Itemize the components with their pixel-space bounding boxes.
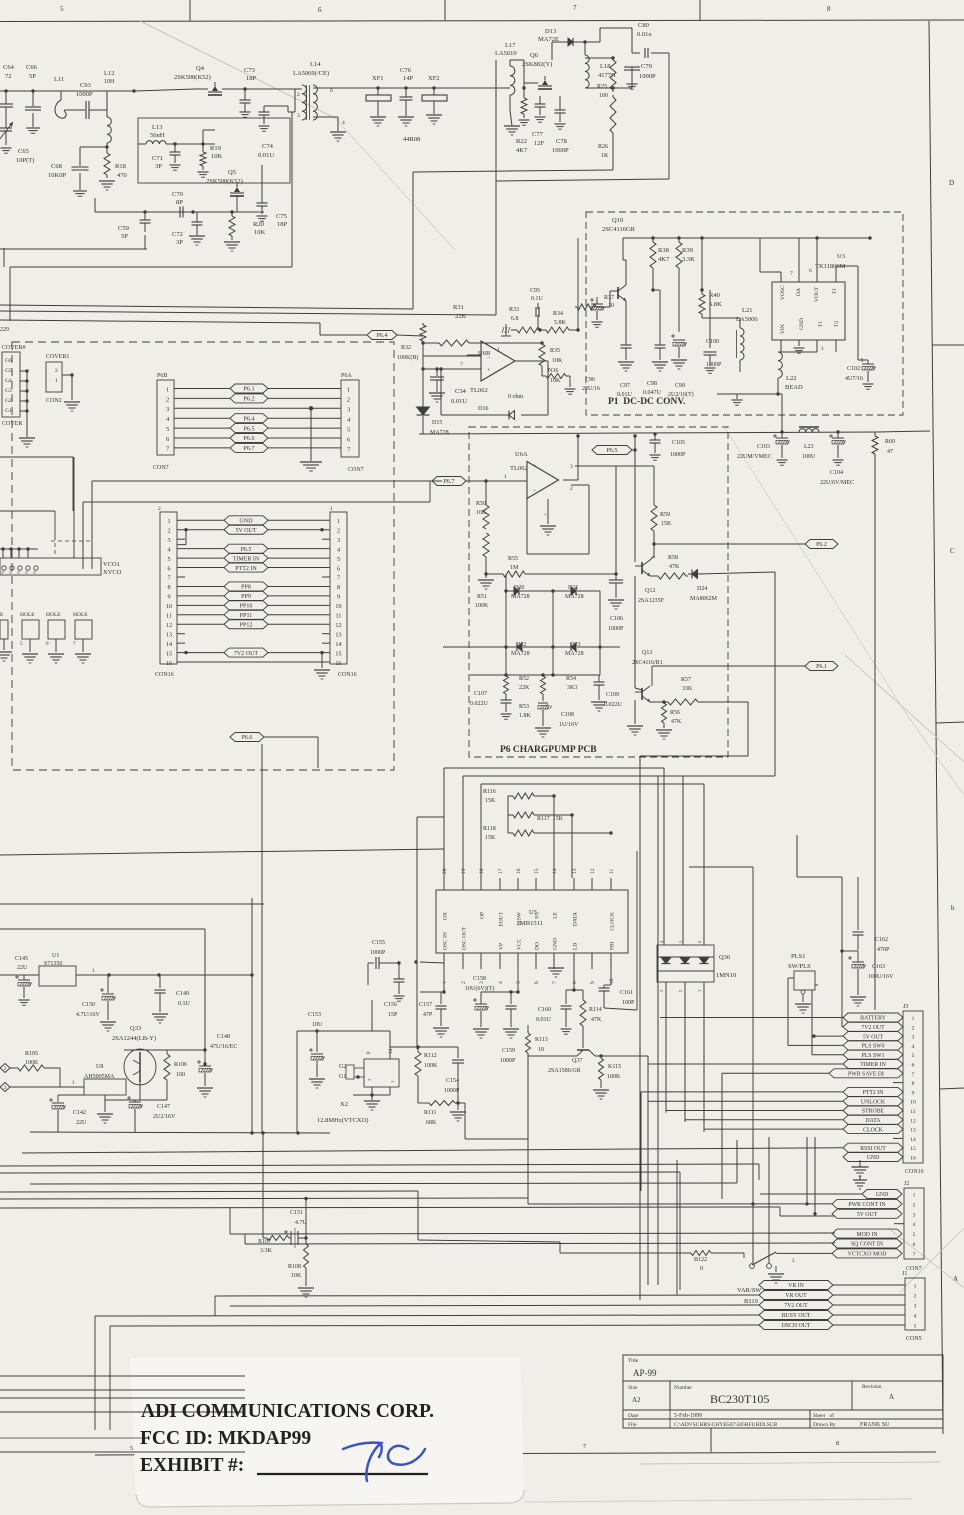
- capacitor C155: [368, 940, 399, 985]
- svg-text:100P: 100P: [622, 1000, 635, 1006]
- svg-text:CON2: CON2: [46, 398, 62, 404]
- svg-text:1: 1: [697, 990, 702, 992]
- svg-text:3K3: 3K3: [567, 685, 577, 691]
- wire X2 right: [390, 1045, 458, 1048]
- stamp text ADI: [141, 1401, 434, 1422]
- border frame top line: [0, 20, 964, 22]
- wire vert 664: [676, 1160, 678, 1295]
- diode D23: [553, 598, 620, 657]
- zone letter D: [949, 179, 954, 187]
- zone letter C: [950, 547, 955, 555]
- svg-text:1: 1: [337, 518, 340, 525]
- svg-text:G2: G2: [5, 398, 12, 404]
- svg-text:3: 3: [166, 406, 169, 413]
- svg-text:R51: R51: [477, 594, 487, 600]
- svg-text:G: G: [8, 570, 13, 573]
- svg-text:C71: C71: [152, 155, 163, 162]
- svg-text:C163: C163: [872, 964, 885, 970]
- svg-text:G2: G2: [339, 1064, 346, 1070]
- capacitor C160: [536, 969, 583, 1034]
- svg-text:9: 9: [590, 981, 596, 984]
- ground J3 GND: [852, 1160, 869, 1189]
- bottom zone 8: [836, 1440, 839, 1447]
- dash-dot VCO box: [51, 541, 90, 556]
- wire bus line C: [0, 320, 367, 335]
- svg-text:22U/16: 22U/16: [582, 386, 600, 392]
- svg-text:6: 6: [337, 565, 340, 572]
- svg-text:C73: C73: [244, 67, 255, 74]
- svg-text:0 ohm: 0 ohm: [508, 394, 524, 400]
- svg-text:0.022U: 0.022U: [470, 701, 489, 707]
- capacitor C162: [853, 877, 891, 953]
- svg-text:8: 8: [337, 584, 340, 591]
- border tick x445: [444, 0, 446, 21]
- svg-text:FCC ID: MKDAP99: FCC ID: MKDAP99: [140, 1428, 311, 1449]
- svg-text:Revision: Revision: [862, 1384, 882, 1390]
- crystal filter XF2: [422, 75, 447, 124]
- svg-text:VCTCXO MOD: VCTCXO MOD: [848, 1252, 887, 1258]
- border tick right y345: [932, 344, 964, 346]
- svg-text:Q10: Q10: [612, 217, 623, 224]
- svg-text:22K: 22K: [455, 313, 467, 320]
- svg-text:2: 2: [297, 92, 300, 98]
- border tick x190: [189, 0, 191, 21]
- svg-text:C154: C154: [446, 1078, 459, 1084]
- svg-text:15: 15: [166, 650, 172, 657]
- svg-text:1: 1: [390, 1081, 395, 1083]
- svg-text:3: 3: [914, 1304, 917, 1310]
- wire left block outline: [0, 511, 55, 540]
- svg-text:10: 10: [335, 603, 341, 610]
- op-amp U6B: [460, 341, 515, 394]
- svg-text:6.8: 6.8: [511, 316, 519, 322]
- svg-text:P6B: P6B: [157, 373, 167, 379]
- svg-text:3: 3: [347, 407, 350, 414]
- svg-text:3: 3: [167, 537, 170, 544]
- svg-text:Date: Date: [628, 1413, 639, 1419]
- svg-text:PP8: PP8: [241, 585, 251, 591]
- svg-text:2SA1244(LB-Y): 2SA1244(LB-Y): [112, 1035, 156, 1042]
- wire VCO pins: [0, 547, 38, 573]
- capacitor C107: [470, 691, 512, 719]
- svg-text:5: 5: [516, 981, 522, 984]
- svg-text:47U/16/EC: 47U/16/EC: [210, 1044, 237, 1050]
- wire main bus: [419, 431, 930, 434]
- svg-text:C102: C102: [847, 366, 860, 372]
- svg-text:R18: R18: [115, 163, 126, 170]
- svg-text:R34: R34: [553, 311, 563, 317]
- flag P6.4: [352, 331, 397, 340]
- small zone 5 bottom: [130, 1446, 133, 1452]
- svg-text:13: 13: [166, 631, 172, 638]
- svg-text:4: 4: [912, 1044, 915, 1050]
- svg-text:OSC IN: OSC IN: [443, 932, 449, 950]
- svg-text:16: 16: [166, 660, 172, 667]
- svg-text:2: 2: [678, 990, 683, 992]
- svg-text:R25: R25: [597, 84, 607, 90]
- bus line 2: [0, 0, 1, 1]
- svg-text:10: 10: [166, 603, 172, 610]
- svg-text:2U2/16V: 2U2/16V: [153, 1114, 176, 1120]
- svg-text:18: 18: [479, 868, 485, 874]
- svg-text:P6.4: P6.4: [243, 415, 254, 422]
- flag P6.1: [805, 662, 838, 671]
- svg-text:10K: 10K: [550, 378, 561, 384]
- svg-text:6: 6: [318, 6, 322, 14]
- wire P6.6 line: [264, 737, 318, 768]
- capacitor C34: [429, 367, 467, 405]
- connector CON16 right: [330, 506, 357, 678]
- bus line mod: [230, 1208, 835, 1234]
- svg-text:P6.5: P6.5: [241, 547, 252, 553]
- transistor Q5: [206, 169, 244, 212]
- svg-text:L14: L14: [310, 61, 321, 68]
- svg-text:14: 14: [335, 641, 341, 648]
- resistor R115: [593, 1054, 648, 1099]
- ground X2: [353, 1087, 390, 1110]
- IC U5 MB1511: [436, 868, 628, 984]
- transistor Q6: [522, 52, 552, 89]
- svg-text:R118: R118: [483, 826, 496, 832]
- wire loop A: [0, 170, 613, 309]
- svg-text:12F: 12F: [534, 140, 545, 147]
- capacitor C66: [25, 64, 41, 133]
- svg-text:2SA1235F: 2SA1235F: [638, 598, 665, 604]
- svg-text:C72: C72: [172, 231, 183, 238]
- svg-text:U8: U8: [96, 1064, 103, 1070]
- svg-text:Title: Title: [628, 1358, 639, 1364]
- resistor R117: [508, 812, 574, 878]
- svg-text:3: 3: [913, 1212, 916, 1218]
- svg-text:4U7/16: 4U7/16: [845, 376, 863, 382]
- scan crease diagonal top: [140, 21, 455, 250]
- svg-text:C59: C59: [118, 225, 129, 232]
- svg-text:6: 6: [167, 565, 170, 572]
- wire L14 to filters: [340, 87, 500, 89]
- svg-text:C103: C103: [757, 444, 770, 450]
- svg-text:P6.4: P6.4: [377, 333, 388, 339]
- transistor Q33: [112, 929, 207, 1085]
- svg-text:P6.7: P6.7: [444, 479, 455, 485]
- bus line 3: [0, 1164, 759, 1180]
- svg-text:2SC4116GR: 2SC4116GR: [602, 226, 636, 233]
- svg-text:4K7: 4K7: [658, 256, 670, 263]
- svg-text:HOLE: HOLE: [73, 612, 88, 618]
- inductor L17: [495, 42, 524, 95]
- resistor R107: [258, 1236, 291, 1255]
- svg-text:1: 1: [497, 347, 500, 353]
- svg-text:G: G: [32, 570, 37, 573]
- svg-text:100U/16V: 100U/16V: [868, 974, 894, 980]
- diode D20: [504, 574, 554, 600]
- svg-text:CON7: CON7: [906, 1266, 922, 1272]
- svg-text:47K: 47K: [591, 1017, 602, 1023]
- svg-text:7V2 OUT: 7V2 OUT: [234, 651, 258, 657]
- svg-text:6: 6: [809, 268, 812, 274]
- svg-text:R33: R33: [509, 307, 519, 313]
- resistor R40: [699, 236, 740, 318]
- svg-text:FBI: FBI: [610, 941, 616, 950]
- svg-text:D24: D24: [697, 586, 707, 592]
- bus line sq: [245, 1234, 835, 1244]
- flag P6.7: [432, 477, 466, 486]
- stamp text EXHIBIT: [140, 1455, 428, 1476]
- svg-text:C107: C107: [474, 691, 487, 697]
- capacitor C109: [591, 675, 623, 711]
- exit line 1: [0, 1375, 245, 1377]
- wire Q37 bottom: [465, 1056, 528, 1198]
- resistor R112: [415, 1047, 438, 1103]
- svg-text:A2: A2: [632, 1396, 641, 1404]
- wire long 853: [0, 849, 444, 855]
- svg-text:8: 8: [572, 981, 578, 984]
- resistor R116: [483, 789, 556, 878]
- capacitor C96: [582, 377, 600, 392]
- svg-text:Q6: Q6: [530, 52, 539, 59]
- svg-text:P6 CHARGPUMP PCB: P6 CHARGPUMP PCB: [500, 745, 597, 755]
- svg-text:Q12: Q12: [645, 588, 655, 594]
- capacitor C157: [419, 992, 449, 1037]
- svg-text:Q36: Q36: [719, 954, 731, 961]
- svg-text:FC: FC: [535, 912, 541, 919]
- wire audio box outer: [0, 903, 264, 905]
- switch PLS1: [788, 953, 815, 1013]
- resistor R32: [397, 323, 426, 361]
- flag P6.2: [805, 540, 838, 549]
- svg-text:33K: 33K: [682, 686, 693, 692]
- inductor L12: [104, 70, 115, 143]
- capacitor C98: [643, 330, 668, 396]
- svg-text:P6.5: P6.5: [607, 448, 618, 454]
- capacitor C79: [611, 63, 656, 90]
- resistor R108: [288, 1238, 314, 1297]
- wire vco vertical pair: [74, 457, 92, 569]
- svg-text:4: 4: [342, 120, 345, 126]
- svg-text:Q33: Q33: [130, 1025, 141, 1032]
- svg-text:DSCH OUT: DSCH OUT: [782, 1323, 811, 1329]
- svg-text:D15: D15: [432, 420, 442, 426]
- capacitor C161: [599, 969, 638, 1010]
- svg-text:R20: R20: [253, 221, 264, 228]
- svg-text:MA728: MA728: [430, 430, 449, 436]
- ground P1 mid: [732, 394, 743, 405]
- resistor R33: [501, 307, 540, 336]
- svg-text:R35: R35: [550, 348, 560, 354]
- svg-text:C68: C68: [51, 163, 62, 170]
- wire P6.2 line: [652, 542, 806, 548]
- module U8 AH5005MA: [60, 1064, 126, 1095]
- svg-text:Sheet of: Sheet of: [813, 1412, 834, 1419]
- svg-text:C158: C158: [473, 976, 486, 982]
- capacitor C103: [737, 430, 790, 465]
- svg-text:1000P: 1000P: [76, 91, 93, 98]
- svg-text:0.01U: 0.01U: [451, 398, 467, 405]
- inductor L22: [717, 352, 803, 432]
- title block Title: [628, 1358, 657, 1378]
- svg-text:C157: C157: [419, 1002, 432, 1008]
- svg-text:5: 5: [167, 556, 170, 563]
- svg-text:R105: R105: [25, 1051, 38, 1057]
- svg-text:1000P: 1000P: [500, 1058, 516, 1064]
- svg-text:5: 5: [337, 556, 340, 563]
- svg-text:C109: C109: [606, 692, 619, 698]
- svg-text:1000P: 1000P: [552, 147, 569, 154]
- svg-text:44R08: 44R08: [403, 136, 420, 143]
- bottom zone 7: [583, 1443, 587, 1450]
- svg-text:12.8MHz(VTCXO): 12.8MHz(VTCXO): [317, 1117, 368, 1124]
- svg-text:G: G: [24, 570, 29, 573]
- zone letter B: [951, 904, 955, 912]
- svg-text:J1: J1: [902, 1271, 907, 1277]
- svg-text:STROBE: STROBE: [862, 1109, 885, 1115]
- svg-text:R56: R56: [670, 710, 680, 716]
- svg-text:VOUT: VOUT: [814, 286, 820, 302]
- svg-text:COVER: COVER: [2, 421, 22, 427]
- wires CON7 to CON7 with net flags: [174, 384, 341, 452]
- wire TX misc: [490, 53, 669, 179]
- resistor R34: [538, 238, 579, 333]
- svg-text:8P: 8P: [176, 199, 183, 206]
- inductor L23: [799, 427, 819, 460]
- svg-text:PWR SAVE DI: PWR SAVE DI: [848, 1072, 884, 1078]
- capacitor C106: [608, 574, 624, 632]
- svg-text:10U(6V)(T): 10U(6V)(T): [465, 985, 494, 992]
- svg-text:56nH: 56nH: [150, 132, 165, 139]
- svg-text:14: 14: [552, 868, 558, 874]
- svg-text:470P: 470P: [877, 947, 890, 953]
- svg-text:R32: R32: [401, 345, 411, 351]
- svg-text:2U2/16(T): 2U2/16(T): [668, 391, 694, 398]
- svg-text:7: 7: [552, 981, 558, 984]
- stamp text FCC: [140, 1428, 311, 1449]
- svg-text:2: 2: [337, 527, 340, 534]
- svg-text:C64: C64: [3, 64, 15, 71]
- wire RF lower rail: [0, 165, 264, 249]
- svg-text:15K: 15K: [485, 835, 496, 841]
- svg-text:9: 9: [337, 594, 340, 601]
- svg-text:R38: R38: [658, 247, 669, 254]
- wire 637 col: [636, 851, 638, 1010]
- diode array Q36: [657, 940, 736, 992]
- svg-text:C76: C76: [400, 67, 412, 74]
- svg-text:15K: 15K: [485, 798, 496, 804]
- svg-text:VIN: VIN: [780, 324, 786, 334]
- svg-text:C75: C75: [276, 213, 287, 220]
- zone number 6: [318, 6, 322, 14]
- svg-text:4: 4: [914, 1314, 917, 1320]
- svg-text:229: 229: [0, 327, 9, 333]
- wire L14 primary return: [4, 112, 292, 321]
- svg-text:17: 17: [498, 868, 504, 874]
- svg-text:3.3K: 3.3K: [682, 256, 695, 263]
- svg-text:C: C: [950, 547, 955, 555]
- exit line 2: [0, 1389, 245, 1391]
- svg-text:PTT2 IN: PTT2 IN: [863, 1090, 885, 1096]
- wire long P6.7 line: [92, 480, 442, 482]
- capacitor C163: [840, 949, 894, 1006]
- svg-text:7V2 OUT: 7V2 OUT: [861, 1025, 885, 1031]
- svg-text:5: 5: [130, 1446, 133, 1452]
- title block Date: [628, 1412, 834, 1419]
- title block rows: [623, 1381, 943, 1428]
- svg-text:1: 1: [167, 518, 170, 525]
- resistor R35: [539, 341, 563, 376]
- svg-text:PP12: PP12: [240, 622, 253, 628]
- svg-text:DATA: DATA: [866, 1118, 882, 1124]
- svg-text:C147: C147: [157, 1104, 170, 1110]
- svg-text:TL062: TL062: [510, 465, 528, 472]
- svg-text:VR IN: VR IN: [788, 1283, 804, 1289]
- bottom faint line: [640, 1462, 940, 1464]
- svg-text:HOLE: HOLE: [20, 612, 35, 618]
- svg-text:1000P: 1000P: [706, 362, 722, 368]
- svg-text:T2: T2: [834, 321, 840, 327]
- wire Q36 bottoms: [666, 982, 704, 1132]
- svg-text:FRANK SU: FRANK SU: [860, 1422, 890, 1428]
- svg-text:C149: C149: [176, 991, 189, 997]
- svg-text:6: 6: [912, 1063, 915, 1069]
- svg-text:0.01U: 0.01U: [617, 392, 633, 398]
- wire audio box inner: [0, 928, 205, 930]
- inductor L11: [54, 76, 72, 118]
- svg-text:C95: C95: [530, 288, 540, 294]
- svg-text:L17: L17: [505, 42, 516, 49]
- capacitor C64: [0, 64, 15, 118]
- capacitor C70: [172, 191, 195, 218]
- wire C162 col: [797, 835, 842, 1027]
- page edge faint bottom: [525, 1499, 912, 1502]
- svg-text:12: 12: [910, 1118, 916, 1124]
- svg-text:PLS SW0: PLS SW0: [861, 1044, 884, 1050]
- svg-text:11: 11: [609, 868, 615, 874]
- svg-text:L23: L23: [804, 444, 814, 450]
- wire nest4: [417, 817, 444, 1049]
- svg-text:2: 2: [167, 527, 170, 534]
- svg-text:47K: 47K: [669, 564, 680, 570]
- svg-text:4: 4: [167, 546, 170, 553]
- capacitor C59: [118, 210, 151, 240]
- capacitor C97: [617, 330, 634, 398]
- svg-text:4.7U/16V: 4.7U/16V: [76, 1012, 101, 1018]
- mounting hole HOLE: [0, 612, 12, 661]
- wire mid verticals: [252, 744, 262, 1133]
- svg-text:1MN10: 1MN10: [716, 972, 736, 979]
- svg-text:22K: 22K: [519, 685, 530, 691]
- svg-text:11: 11: [166, 613, 172, 620]
- svg-text:72: 72: [5, 73, 12, 80]
- svg-text:MA728: MA728: [565, 594, 584, 600]
- svg-text:C142: C142: [73, 1110, 86, 1116]
- inductor L18: [583, 40, 616, 88]
- capacitor C153: [297, 1012, 390, 1133]
- resistor R105: [10, 1051, 60, 1087]
- capacitor C147: [127, 1096, 176, 1132]
- svg-text:G1: G1: [339, 1074, 346, 1080]
- svg-text:L12: L12: [104, 70, 114, 77]
- svg-text:10K: 10K: [291, 1273, 302, 1279]
- svg-text:5: 5: [347, 427, 350, 434]
- svg-text:LA5069(/CE): LA5069(/CE): [293, 70, 329, 77]
- svg-text:R106: R106: [174, 1062, 187, 1068]
- svg-text:1: 1: [330, 506, 333, 512]
- capacitor C99: [668, 290, 694, 398]
- svg-text:EOUT: EOUT: [499, 911, 505, 926]
- svg-text:Q4: Q4: [196, 65, 205, 72]
- svg-text:22UM/VMEC: 22UM/VMEC: [737, 454, 772, 460]
- svg-text:HOLE: HOLE: [46, 612, 61, 618]
- svg-text:2SK882(Y): 2SK882(Y): [522, 61, 552, 68]
- bus j1 line 4: [110, 1325, 759, 1430]
